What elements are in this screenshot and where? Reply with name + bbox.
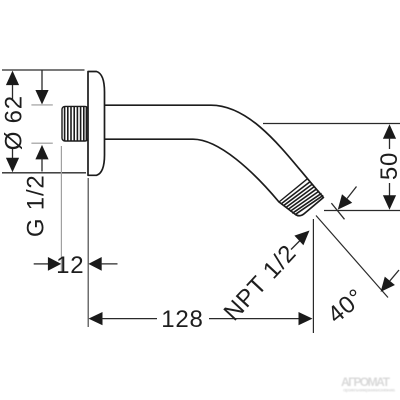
arrow 128 left — [89, 312, 103, 325]
NPT leader arrow — [294, 231, 309, 246]
dim 50 upper shaft — [389, 138, 391, 149]
svg-text:40°: 40° — [323, 283, 370, 328]
arrow 12 right — [88, 257, 101, 271]
arrow 50 down — [383, 195, 396, 210]
dim 50 bottom ext line — [324, 210, 400, 212]
40deg arrow at ext line — [338, 194, 352, 209]
NPT leader shaft — [291, 241, 300, 250]
40deg slash tick — [331, 203, 344, 219]
G1/2 arrow down — [35, 90, 48, 105]
G1/2 arrow up — [35, 145, 48, 160]
G1/2 lower shaft — [41, 158, 43, 171]
svg-text:12: 12 — [56, 252, 84, 279]
dim 12 left shaft — [34, 263, 49, 265]
ext line flange-face vertical — [87, 178, 89, 327]
arm tube outline — [104, 105, 323, 216]
svg-text:NPT 1/2: NPT 1/2 — [219, 240, 302, 327]
svg-text:строительная керамика и сантех: строительная керамика и сантехника — [343, 388, 395, 393]
arrow D62 top — [6, 71, 19, 86]
dim 50 top ext line — [263, 123, 400, 125]
svg-text:50: 50 — [376, 152, 400, 180]
flange (wall plate side view) — [88, 72, 105, 176]
svg-text:G 1/2: G 1/2 — [23, 174, 50, 237]
dim line D62 lower shaft — [12, 147, 14, 159]
svg-text:Ø 62: Ø 62 — [0, 95, 27, 150]
arrow 12 left — [48, 257, 61, 271]
thread G1/2 hatched block — [62, 106, 88, 141]
extension line top (flange top level) — [2, 69, 85, 71]
thread NPT band at tip — [279, 179, 323, 215]
dim 50 lower shaft — [389, 183, 391, 197]
extension line bottom (flange bottom level) — [2, 172, 86, 174]
G1/2 ext tick bottom — [31, 142, 52, 144]
ext line thread-left vertical — [60, 146, 62, 272]
dim 12 right shaft — [101, 263, 118, 265]
dim 128 right shaft — [209, 318, 300, 320]
arrow 50 up — [383, 124, 396, 139]
40deg arrow-C shaft — [390, 270, 399, 281]
G1/2 ext tick top — [31, 104, 52, 106]
40deg arrow-A shaft — [347, 187, 356, 199]
40deg arrow at diagonal — [381, 277, 395, 292]
svg-text:128: 128 — [161, 306, 203, 333]
watermark — [341, 375, 395, 393]
arrow D62 bottom — [6, 158, 19, 173]
dim 128 left shaft — [102, 318, 158, 320]
arrow 128 right — [299, 312, 313, 325]
40deg long diagonal — [316, 216, 388, 298]
ext line arm-tip vertical — [312, 219, 314, 333]
dim line D62 upper shaft — [12, 84, 14, 101]
G1/2 dim upper shaft — [41, 70, 43, 92]
